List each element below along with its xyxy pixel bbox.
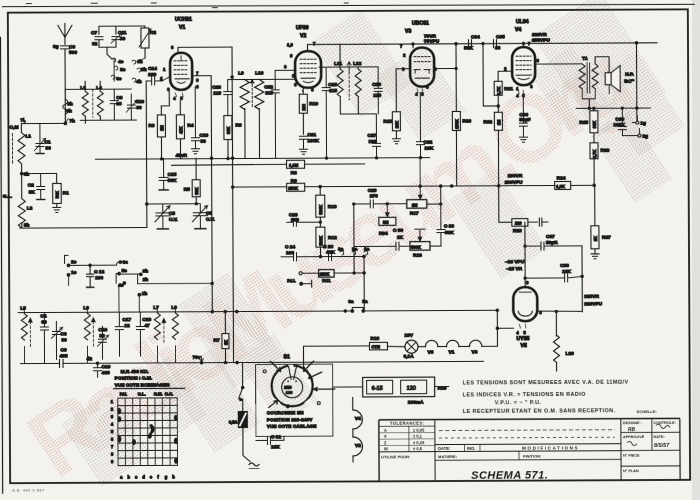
svg-text:465: 465 <box>102 370 110 376</box>
capacitor C31 <box>256 434 284 450</box>
capacitor C30 <box>354 228 410 251</box>
resistor R26 <box>590 143 610 186</box>
resistor R12 <box>316 227 337 257</box>
svg-text:5M: 5M <box>383 220 389 225</box>
capacitor C34 <box>464 34 480 51</box>
svg-text:C11: C11 <box>118 30 127 36</box>
svg-text:N° PIECE: N° PIECE <box>623 454 640 458</box>
svg-text:–15 VR: –15 VR <box>506 266 523 272</box>
svg-text:R8: R8 <box>291 170 297 176</box>
wire C34-C35 node to R21 <box>482 42 500 107</box>
tube V4 UL84 <box>512 19 535 85</box>
resistor R7 <box>213 310 229 363</box>
svg-text:1,6: 1,6 <box>287 42 294 47</box>
svg-text:V2: V2 <box>300 33 306 39</box>
tube V2 pin labels <box>284 41 316 94</box>
MF connection grid <box>118 398 178 466</box>
svg-text:1h: 1h <box>142 291 148 297</box>
svg-text:POSITION 220-240V: POSITION 220-240V <box>267 417 313 422</box>
svg-text:UF89: UF89 <box>296 25 309 31</box>
capacitor C20 <box>212 80 232 116</box>
svg-text:7h: 7h <box>69 118 75 124</box>
ground R15 <box>392 139 400 144</box>
svg-text:220VPU: 220VPU <box>584 301 602 307</box>
svg-text:8/5/57: 8/5/57 <box>654 443 670 449</box>
svg-text:33K: 33K <box>226 127 231 135</box>
capacitor C25 <box>319 67 340 158</box>
capacitor C33 <box>437 185 455 246</box>
svg-text:6c: 6c <box>116 76 122 82</box>
resistor R1 <box>22 173 70 207</box>
sheet registration marks <box>26 2 349 9</box>
wire switch to heater line <box>303 346 369 368</box>
capacitor C18 <box>136 312 151 356</box>
svg-text:R16: R16 <box>413 253 422 259</box>
svg-text:L5: L5 <box>20 306 26 312</box>
node 7h <box>64 118 75 124</box>
svg-text:VUE COTE BOBINAGES: VUE COTE BOBINAGES <box>115 382 171 388</box>
svg-text:L8: L8 <box>171 305 177 311</box>
wire L9/L10 links <box>228 78 295 80</box>
svg-text:LES TENSIONS SONT MESUREES: LES TENSIONS SONT MESUREES AVEC V.A. DE … <box>463 380 629 387</box>
capacitor C35 <box>493 34 505 51</box>
svg-text:C 33: C 33 <box>444 223 454 229</box>
coil L4 <box>93 81 104 120</box>
svg-text:L6: L6 <box>83 305 89 311</box>
svg-text:100K: 100K <box>307 138 319 144</box>
transformer T1 <box>535 56 598 109</box>
wire V1 anode pin7 <box>192 76 213 313</box>
node d2 <box>87 356 93 362</box>
svg-text:G.L.: G.L. <box>3 194 12 200</box>
svg-text:C6: C6 <box>60 331 66 337</box>
svg-text:1a: 1a <box>364 246 370 252</box>
svg-text:P.U.: P.U. <box>120 392 127 397</box>
svg-text:0,1A: 0,1A <box>404 354 415 360</box>
svg-text:4c: 4c <box>118 59 124 65</box>
capacitor C9 (series in bus) <box>59 347 67 367</box>
capacitor C7 <box>91 30 103 47</box>
heater coil V1 <box>438 340 459 355</box>
wire 1a to bus311 <box>363 255 366 311</box>
svg-text:H.P.: H.P. <box>625 72 634 78</box>
svg-text:V3: V3 <box>471 349 477 355</box>
svg-text:18V: 18V <box>404 333 413 339</box>
capacitor C3 <box>53 44 77 56</box>
contact 2c <box>65 255 77 266</box>
svg-text:115: 115 <box>213 91 221 97</box>
svg-text:L7: L7 <box>153 305 159 311</box>
svg-text:± 0,1: ± 0,1 <box>413 434 423 439</box>
svg-text:POSITION : O.M.: POSITION : O.M. <box>115 375 153 381</box>
svg-text:40K: 40K <box>326 250 335 256</box>
svg-text:DESSINÉ :: DESSINÉ : <box>623 420 642 425</box>
svg-text:2,7K: 2,7K <box>592 150 597 159</box>
resistor R4 <box>176 101 194 159</box>
svg-text:500: 500 <box>69 50 77 56</box>
capacitor C36 <box>519 95 530 137</box>
svg-text:270: 270 <box>370 193 378 199</box>
svg-text:4h: 4h <box>136 79 142 85</box>
resistor R24 <box>555 175 571 189</box>
svg-text:C35: C35 <box>496 34 505 40</box>
svg-text:R18: R18 <box>370 336 379 342</box>
svg-text:R17: R17 <box>410 211 419 217</box>
svg-text:R27: R27 <box>602 235 611 241</box>
resistor R3 <box>148 106 165 159</box>
svg-text:VUE COTE CABLAGE: VUE COTE CABLAGE <box>267 424 317 429</box>
wire cluster left vertical <box>353 203 356 274</box>
svg-text:R5: R5 <box>184 187 190 193</box>
svg-text:10K: 10K <box>271 444 280 450</box>
resistor R5 <box>184 158 201 204</box>
svg-text:O.L.: O.L. <box>138 392 146 397</box>
svg-text:100K: 100K <box>613 122 625 128</box>
IF transformer L10 <box>250 70 265 158</box>
contact 3h <box>138 268 149 283</box>
svg-text:7l,: 7l, <box>20 118 26 124</box>
svg-text:C37: C37 <box>546 234 555 240</box>
svg-text:1M: 1M <box>412 203 418 208</box>
wire antenna to node 7h <box>64 53 66 123</box>
svg-text:220: 220 <box>148 72 156 78</box>
switch 6a 5a <box>348 299 368 312</box>
svg-text:C3: C3 <box>69 44 75 50</box>
svg-text:47K: 47K <box>178 126 183 134</box>
svg-text:50K: 50K <box>194 187 199 195</box>
coil L3 <box>80 81 88 120</box>
lamp coils V4 V2 <box>353 397 363 462</box>
svg-text:± 0,25: ± 0,25 <box>413 440 425 445</box>
svg-text:C14: C14 <box>148 66 157 72</box>
antenna <box>58 23 72 44</box>
ground R27 <box>591 254 599 259</box>
svg-text:9g: 9g <box>53 44 59 50</box>
svg-text:R25: R25 <box>579 120 588 126</box>
svg-text:2a: 2a <box>352 246 358 252</box>
wire grid bias R3 <box>161 91 169 106</box>
IF transformer L9 <box>238 70 249 158</box>
svg-text:C7: C7 <box>91 30 97 36</box>
svg-text:R15: R15 <box>383 119 392 125</box>
svg-text:50K: 50K <box>168 178 177 184</box>
wire V2 anode top bus <box>307 43 657 51</box>
svg-text:R23: R23 <box>513 228 522 234</box>
tube V5 pin labels <box>516 280 542 335</box>
svg-text:465: 465 <box>60 353 68 359</box>
svg-text:L4: L4 <box>96 85 102 91</box>
svg-text:C8: C8 <box>116 95 122 101</box>
svg-text:C9: C9 <box>60 347 66 353</box>
capacitor C14 <box>145 66 170 228</box>
svg-text:C13: C13 <box>102 364 111 370</box>
jack 1g <box>632 116 646 127</box>
svg-text:50μF: 50μF <box>519 117 530 123</box>
svg-text:O.C.: O.C. <box>165 391 173 396</box>
svg-text:10K: 10K <box>562 269 571 275</box>
svg-text:R34: R34 <box>379 231 388 237</box>
svg-text:C32: C32 <box>423 140 432 146</box>
svg-text:O.M.: O.M. <box>154 391 163 396</box>
svg-text:C29: C29 <box>368 188 377 194</box>
IF transformer L12 <box>347 61 362 114</box>
svg-text:115: 115 <box>373 93 381 99</box>
wire V5 plate <box>538 310 582 336</box>
contacts 3a 2a 1a <box>338 246 370 255</box>
resistor R27 <box>591 185 611 254</box>
svg-text:A.B. 480 X 667: A.B. 480 X 667 <box>12 488 45 492</box>
svg-text:100: 100 <box>291 217 299 223</box>
svg-text:50μF.: 50μF. <box>546 240 558 246</box>
svg-text:R4: R4 <box>187 123 193 129</box>
variable capacitor C5b <box>192 204 215 229</box>
svg-text:220: 220 <box>515 221 523 226</box>
capacitor C17 <box>115 312 131 356</box>
svg-text:L11: L11 <box>334 61 342 67</box>
svg-text:CTN: CTN <box>371 344 379 349</box>
capacitor C32 <box>416 93 434 159</box>
capacitor C16 (variable) <box>97 326 108 359</box>
svg-text:LE RECEPTEUR ETANT EN O.M.: LE RECEPTEUR ETANT EN O.M. SANS RECEPTIO… <box>463 408 616 415</box>
svg-text:O,M: O,M <box>9 125 18 131</box>
svg-text:500K: 500K <box>411 245 421 250</box>
heater coil V3 <box>459 340 482 355</box>
svg-text:SCHEMA 571.: SCHEMA 571. <box>471 470 548 482</box>
svg-text:115: 115 <box>265 90 273 96</box>
contact 6e <box>117 260 129 266</box>
coil L2 <box>3 174 33 229</box>
capacitor C38 <box>525 263 582 282</box>
wire ground bus 226 <box>20 203 201 228</box>
svg-text:C25: C25 <box>328 82 337 88</box>
ground C36 <box>519 137 527 142</box>
tube V4 pin labels <box>504 41 533 98</box>
capacitor C11 (trimmer) <box>111 30 127 47</box>
svg-text:2h: 2h <box>143 277 149 283</box>
svg-text:C15: C15 <box>168 172 177 178</box>
capacitor C10 (variable) <box>126 94 144 120</box>
svg-text:30: 30 <box>120 36 126 42</box>
svg-text:3h: 3h <box>143 268 149 274</box>
svg-text:2c: 2c <box>71 259 77 265</box>
bus 186 <box>231 184 595 188</box>
svg-text:N° PLAN: N° PLAN <box>623 469 639 473</box>
svg-text:220VR: 220VR <box>532 32 547 38</box>
svg-text:C38: C38 <box>560 263 569 269</box>
svg-text:150K: 150K <box>288 186 298 191</box>
svg-text:L1: L1 <box>25 134 31 140</box>
svg-text:–16 VPU: –16 VPU <box>505 259 525 265</box>
tube V3 UBC81 <box>405 21 434 87</box>
resistor R21 <box>494 71 513 95</box>
svg-text:C5: C5 <box>206 211 212 217</box>
svg-text:LES INDICES V.R. = TENSIONS: LES INDICES V.R. = TENSIONS EN RADIO <box>463 392 586 399</box>
svg-text:30: 30 <box>61 337 67 343</box>
svg-text:R6: R6 <box>235 123 241 129</box>
svg-text:V1: V1 <box>179 25 185 31</box>
svg-text:1,8K: 1,8K <box>556 184 565 189</box>
capacitor C24 <box>281 244 364 261</box>
tube V5 UY85 <box>513 287 537 349</box>
wire vertical x637 <box>635 42 638 121</box>
svg-text:5c: 5c <box>120 67 126 73</box>
MF table headers <box>120 391 173 396</box>
svg-text:R12: R12 <box>328 235 337 241</box>
svg-text:6e: 6e <box>123 260 129 266</box>
svg-text:82: 82 <box>92 41 98 47</box>
svg-text:115: 115 <box>329 88 337 94</box>
capacitor C37 <box>524 234 582 250</box>
svg-text:190VR: 190VR <box>508 173 523 179</box>
resistor R9 <box>287 178 305 191</box>
wire V4 cathode chain <box>499 186 527 288</box>
label COURONNE <box>267 410 317 429</box>
switch assembly box <box>256 364 333 436</box>
bus 158 <box>96 152 430 161</box>
svg-text:UBC81: UBC81 <box>412 21 429 27</box>
coil L8 <box>171 305 178 363</box>
node contacts 4c 5c 6c <box>107 54 126 82</box>
svg-text:C16: C16 <box>98 327 107 333</box>
svg-text:L12: L12 <box>353 61 362 67</box>
svg-text:L9: L9 <box>238 71 244 77</box>
svg-text:V2: V2 <box>355 443 361 449</box>
svg-text:C20: C20 <box>212 85 221 91</box>
svg-text:V4: V4 <box>355 416 361 422</box>
svg-text:500K: 500K <box>318 205 323 215</box>
outer sheet edge line <box>2 3 695 7</box>
svg-text:1c: 1c <box>71 270 77 276</box>
svg-text:L10: L10 <box>255 70 264 76</box>
svg-text:C.V.: C.V. <box>206 217 215 223</box>
svg-text:3a: 3a <box>338 247 344 253</box>
fuse block R19 <box>333 377 449 406</box>
capacitor C1 (variable) <box>34 123 51 153</box>
svg-text:C 26: C 26 <box>323 244 333 250</box>
svg-text:130: 130 <box>286 390 293 395</box>
svg-text:C27: C27 <box>367 133 376 139</box>
node 70v <box>193 355 204 362</box>
tube V1 UCH81 <box>170 17 192 90</box>
svg-text:M.F. 480 KC.: M.F. 480 KC. <box>121 369 149 375</box>
svg-text:1K: 1K <box>223 340 228 345</box>
capacitor C23 <box>287 212 322 226</box>
svg-text:S1: S1 <box>284 354 290 360</box>
mains lead <box>249 463 259 469</box>
svg-text:C18: C18 <box>142 317 151 323</box>
svg-text:MODIFICATIONS: MODIFICATIONS <box>522 446 579 451</box>
svg-text:R10: R10 <box>309 101 318 107</box>
svg-text:± 0,05: ± 0,05 <box>413 427 425 432</box>
potentiometer R16 <box>410 229 441 259</box>
wire 5e to 3h <box>119 273 141 275</box>
svg-text:V4: V4 <box>515 27 521 33</box>
bus 311 <box>18 309 498 314</box>
svg-text:C22: C22 <box>264 84 273 90</box>
capacitor C4 <box>40 312 48 363</box>
svg-text:APPROUVÉ: APPROUVÉ <box>623 434 645 439</box>
svg-text:C21: C21 <box>307 132 316 138</box>
capacitor C28 <box>358 67 382 114</box>
svg-text:UL84: UL84 <box>516 19 529 25</box>
svg-text:C17: C17 <box>122 317 131 323</box>
svg-text:X: X <box>384 434 387 439</box>
capacitor C13 <box>94 363 111 377</box>
ground C19 <box>192 149 200 154</box>
svg-text:1g: 1g <box>640 121 646 127</box>
resistor R15 <box>383 112 400 139</box>
svg-text:UY85: UY85 <box>516 336 529 342</box>
svg-text:200VPU: 200VPU <box>505 180 523 186</box>
potentiometer R2 <box>139 28 157 58</box>
svg-text:R24: R24 <box>557 175 566 181</box>
wire V3 top <box>412 43 414 48</box>
capacitor C29 <box>354 188 407 208</box>
svg-text:R22: R22 <box>483 119 492 125</box>
jack 2g <box>638 129 648 140</box>
svg-text:R2: R2 <box>150 30 156 36</box>
contact 1c <box>67 270 77 286</box>
svg-text:W: W <box>384 446 388 451</box>
node contacts 6h 5h 4h <box>132 58 147 85</box>
svg-text:1,8M: 1,8M <box>289 163 299 168</box>
svg-text:100: 100 <box>368 139 376 145</box>
svg-text:P.U.: P.U. <box>287 278 296 284</box>
svg-text:RB: RB <box>628 427 636 433</box>
coil L6 <box>83 305 96 363</box>
coil L20 <box>553 335 574 371</box>
svg-text:5K: 5K <box>29 190 36 196</box>
lamp 18V <box>403 333 421 360</box>
svg-text:C 24: C 24 <box>285 244 295 250</box>
voltage label -16VPU <box>505 259 525 272</box>
contact 5e <box>116 268 127 283</box>
svg-text:100: 100 <box>95 275 103 281</box>
ground C21 <box>300 149 308 154</box>
resistor R18 CTN <box>369 336 405 350</box>
svg-text:L20: L20 <box>565 351 574 357</box>
contact 1h <box>138 291 147 312</box>
resistor R23 <box>499 218 548 234</box>
tube V2 UF89 <box>295 25 321 88</box>
svg-text:2g: 2g <box>642 134 648 140</box>
svg-text:50K: 50K <box>464 45 473 51</box>
svg-text:C10: C10 <box>135 99 144 105</box>
resistor R11 <box>303 269 365 284</box>
svg-text:5e: 5e <box>122 268 128 274</box>
svg-text:C4: C4 <box>40 313 46 319</box>
svg-text:C 12: C 12 <box>94 269 104 275</box>
svg-text:DATE:: DATE: <box>438 446 451 451</box>
bus 109 <box>576 107 650 110</box>
resistor R22 <box>483 95 502 186</box>
svg-text:C28: C28 <box>372 82 381 88</box>
voltage label 225VR <box>584 294 602 308</box>
svg-text:45vR: 45vR <box>176 153 188 159</box>
wire L11/L12 links <box>340 67 376 114</box>
svg-text:T1: T1 <box>582 56 588 62</box>
capacitor C21 <box>299 132 319 149</box>
wire vertical x457 <box>455 43 458 112</box>
capacitor C22 <box>264 70 294 158</box>
svg-text:6-15: 6-15 <box>372 386 383 392</box>
svg-text:50K: 50K <box>445 230 454 236</box>
wire vertical x582 <box>581 246 584 312</box>
svg-text:COURONNE EN: COURONNE EN <box>267 410 304 415</box>
svg-text:70v: 70v <box>193 355 201 361</box>
svg-text:47: 47 <box>144 323 150 329</box>
svg-text:8h: 8h <box>24 172 30 178</box>
